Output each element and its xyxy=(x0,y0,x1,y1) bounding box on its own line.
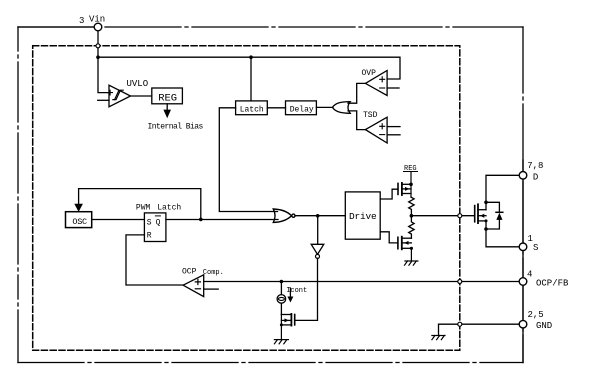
svg-text:REG: REG xyxy=(158,93,177,105)
svg-text:Internal Bias: Internal Bias xyxy=(148,123,204,132)
svg-text:PWM: PWM xyxy=(136,204,151,213)
svg-text:D: D xyxy=(533,172,538,182)
wire source to pin S xyxy=(486,221,519,247)
transistor PMOS (high side driver) xyxy=(398,172,411,198)
comparator UVLO xyxy=(98,85,131,107)
pin 7,8 D xyxy=(519,172,527,180)
transistor NMOS (OCP pulldown) xyxy=(280,314,295,340)
node PMOS source REG xyxy=(409,183,413,187)
diode body (external MOSFET) xyxy=(486,202,503,229)
svg-text:OSC: OSC xyxy=(72,217,87,227)
block Delay xyxy=(286,101,317,115)
svg-text:Delay: Delay xyxy=(290,105,314,114)
block OSC xyxy=(66,212,92,228)
resistor R upper xyxy=(409,197,414,215)
svg-text:Latch: Latch xyxy=(157,204,181,213)
wire Delay to OR gate output xyxy=(316,106,333,108)
wire GND pin to ground xyxy=(439,324,520,335)
ground (OCP pulldown) xyxy=(274,340,288,344)
svg-text:R: R xyxy=(147,232,152,241)
transistor Q1 external MOSFET xyxy=(475,204,486,223)
pin 4 OCP/FB xyxy=(519,278,527,286)
pin 2,5 GND xyxy=(519,320,527,328)
arrow Icont direction xyxy=(287,288,293,303)
block PWM latch xyxy=(144,213,166,242)
wire Drive to PMOS gate xyxy=(380,189,398,199)
svg-text:UVLO: UVLO xyxy=(127,79,149,89)
wire feedback Q to OSC xyxy=(74,189,201,220)
IC internal dashed boundary xyxy=(33,46,460,351)
node NOR output junction xyxy=(316,214,320,218)
svg-text:3: 3 xyxy=(79,16,84,26)
svg-text:S: S xyxy=(147,218,152,227)
wire drain to pin D xyxy=(486,175,519,209)
pin 1 S xyxy=(519,243,527,251)
ground (driver stage) xyxy=(405,261,418,265)
svg-text:OCP/FB: OCP/FB xyxy=(536,279,569,289)
arrow Internal Bias xyxy=(163,104,171,118)
svg-text:Q: Q xyxy=(156,218,161,227)
wire NOR output to Drive xyxy=(295,215,345,217)
svg-text:Comp.: Comp. xyxy=(203,269,224,277)
inverter (gate drive low side) xyxy=(295,216,324,321)
wire node to external gate (crosses boundary) xyxy=(411,215,474,217)
node boundary crossing gate xyxy=(458,214,462,218)
node drain/diode xyxy=(484,201,488,205)
resistor R lower xyxy=(409,216,414,239)
svg-text:S: S xyxy=(533,243,538,253)
svg-text:Latch: Latch xyxy=(240,105,264,114)
node Icont branch xyxy=(280,280,284,284)
comparator OVP xyxy=(365,71,399,96)
wire Latch to Delay xyxy=(267,107,285,109)
OR gate (mirrored, OVP/TSD combine) xyxy=(332,102,350,114)
node junction at Latch branch xyxy=(249,55,253,59)
comparator TSD xyxy=(365,117,400,143)
svg-text:2,5: 2,5 xyxy=(528,310,544,320)
wire Vin top rail to OVP xyxy=(98,57,400,79)
wire OSC to PWM latch S xyxy=(92,219,145,221)
wire PWM latch Q to NOR bottom input xyxy=(166,219,278,221)
node feedback junction xyxy=(199,218,203,222)
current source Icont xyxy=(277,282,286,315)
svg-text:TSD: TSD xyxy=(363,111,378,120)
wire PWM latch R to OCP comparator output xyxy=(126,235,183,285)
wire Vin vertical from pin 3 xyxy=(98,31,109,93)
transistor NMOS (low side driver) xyxy=(398,237,413,261)
svg-text:Vin: Vin xyxy=(89,15,105,25)
outer package boundary (chain line) xyxy=(18,27,523,363)
wire OVP output to OR gate xyxy=(348,83,365,103)
block Latch xyxy=(236,57,268,115)
gate NOR xyxy=(273,209,295,222)
node resistor midpoint xyxy=(410,214,414,218)
label REG (underlined) xyxy=(404,165,418,173)
wire TSD output to OR gate xyxy=(348,111,365,130)
wire Drive to NMOS gate xyxy=(380,232,398,243)
svg-text:7,8: 7,8 xyxy=(527,161,543,171)
svg-text:Drive: Drive xyxy=(349,211,377,222)
node boundary crossing OCP/FB xyxy=(458,280,462,284)
pin 3 Vin xyxy=(94,23,102,31)
node source/diode xyxy=(484,227,488,231)
svg-text:OCP: OCP xyxy=(182,268,197,277)
ground (GND pin) xyxy=(432,336,445,340)
wire Latch to NOR top input xyxy=(219,108,277,212)
node Vin junction xyxy=(96,55,100,59)
comparator OCP xyxy=(183,275,218,297)
svg-text:OVP: OVP xyxy=(362,69,377,78)
block REG xyxy=(152,88,183,105)
wire OCP/FB line to pin 4 xyxy=(204,281,520,283)
node boundary crossing GND xyxy=(458,322,462,326)
svg-text:4: 4 xyxy=(527,270,532,280)
block Drive xyxy=(345,192,380,239)
node Vin boundary crossing xyxy=(96,44,100,48)
svg-text:Icont: Icont xyxy=(286,287,307,295)
svg-text:GND: GND xyxy=(536,321,552,331)
wire UVLO to REG xyxy=(131,95,152,97)
